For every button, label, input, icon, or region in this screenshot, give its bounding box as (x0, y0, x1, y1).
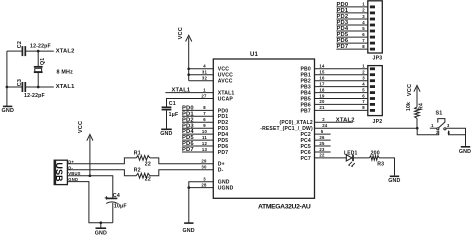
svg-text:R1: R1 (134, 151, 141, 157)
USB connector X1 (54, 159, 80, 184)
svg-text:PD7: PD7 (337, 44, 349, 50)
ground GND (crystal section) (2, 106, 15, 114)
svg-text:6: 6 (362, 93, 365, 98)
svg-text:PB7: PB7 (300, 108, 310, 114)
svg-text:VCC: VCC (78, 121, 84, 133)
svg-text:31: 31 (202, 70, 208, 75)
svg-text:R3: R3 (377, 161, 384, 167)
junction VBUS/VCC (89, 174, 92, 177)
crystal Q1 8MHz (34, 51, 73, 87)
svg-text:GND: GND (388, 178, 400, 184)
wire: USB D+ to R1 (67, 158, 136, 164)
svg-text:S1: S1 (436, 111, 443, 117)
svg-text:JP3: JP3 (373, 55, 383, 61)
svg-text:15: 15 (319, 70, 325, 75)
svg-text:1: 1 (362, 2, 365, 7)
wire: UCAP pin 27 to C1 (167, 93, 214, 107)
svg-text:2: 2 (362, 70, 365, 75)
svg-text:1: 1 (362, 64, 365, 69)
svg-text:4: 4 (362, 20, 365, 25)
wire: C4 to ground rail (112, 203, 114, 223)
svg-text:LED1: LED1 (344, 150, 358, 156)
svg-text:XTAL2: XTAL2 (56, 48, 75, 54)
wire: R3 to GND (379, 158, 394, 176)
capacitor C3 12-22pF (17, 79, 45, 99)
svg-text:XTAL2: XTAL2 (336, 117, 355, 123)
svg-text:XTAL1: XTAL1 (172, 88, 191, 94)
wire: LED1 to R3 (352, 157, 370, 159)
ground GND (R3) (390, 175, 399, 177)
svg-text:R4: R4 (419, 103, 425, 110)
wire: USB GND pin down to rail (67, 182, 112, 223)
svg-text:6: 6 (203, 117, 206, 122)
svg-text:10μF: 10μF (114, 204, 127, 210)
wire: R4 to RESET line (416, 118, 418, 128)
svg-text:PD4: PD4 (337, 26, 349, 32)
nodes PD0-PD7 at JP3 with wires (336, 2, 367, 51)
svg-text:5: 5 (362, 26, 365, 31)
svg-text:8: 8 (362, 105, 365, 110)
svg-text:26: 26 (319, 135, 325, 140)
svg-text:VCC: VCC (407, 84, 413, 96)
U1 unconnected pin stubs PC2/PC4/PC5/PC6 (314, 129, 330, 152)
switch S1 (417, 111, 450, 136)
svg-text:D-: D- (218, 168, 224, 174)
svg-text:22: 22 (319, 153, 325, 158)
svg-text:AVCC: AVCC (218, 79, 233, 85)
svg-text:22: 22 (145, 162, 151, 168)
svg-text:12-22pF: 12-22pF (30, 44, 51, 50)
svg-text:1: 1 (203, 87, 206, 92)
svg-text:C2: C2 (17, 41, 23, 48)
wire: USB D- to R2 (67, 170, 136, 176)
svg-text:U1: U1 (250, 52, 259, 58)
svg-text:GND: GND (95, 230, 107, 236)
svg-text:2: 2 (322, 117, 325, 122)
svg-text:7: 7 (203, 111, 206, 116)
svg-text:PD1: PD1 (337, 8, 349, 14)
svg-text:GND: GND (2, 108, 15, 114)
svg-text:10k: 10k (406, 102, 412, 111)
svg-text:17: 17 (319, 81, 325, 86)
ground GND (S1) (461, 146, 470, 148)
svg-text:16: 16 (319, 76, 325, 81)
node XTAL2 at U1 pin 2 (314, 117, 354, 123)
svg-text:12-22pF: 12-22pF (24, 93, 45, 99)
svg-text:8: 8 (362, 44, 365, 49)
node XTAL1 (net label + junction) (37, 84, 75, 90)
nodes PD0-PD7 net labels at U1 (182, 105, 213, 153)
svg-text:3: 3 (203, 177, 206, 182)
svg-text:11: 11 (202, 135, 207, 140)
svg-text:21: 21 (319, 105, 325, 110)
svg-text:UGND: UGND (218, 186, 234, 192)
connector JP3 (368, 1, 383, 62)
resistor R4 10k (406, 102, 425, 118)
wire: crystal left bus (XTAL2/XTAL1 caps to GND) (6, 51, 23, 106)
svg-text:JP2: JP2 (373, 119, 383, 125)
svg-text:XTAL1: XTAL1 (56, 84, 75, 90)
svg-text:200: 200 (371, 150, 380, 156)
svg-text:13: 13 (202, 147, 208, 152)
svg-text:8: 8 (203, 105, 206, 110)
node XTAL1 at U1 pin 1 (165, 87, 213, 93)
svg-text:C4: C4 (113, 193, 120, 199)
svg-text:24: 24 (322, 123, 328, 128)
svg-text:UCAP: UCAP (218, 96, 234, 102)
svg-text:4: 4 (203, 64, 206, 69)
svg-text:PC7: PC7 (300, 156, 310, 162)
svg-text:C1: C1 (169, 101, 176, 107)
wire: VCC to VBUS (89, 137, 91, 176)
wire: S1 to GND (446, 128, 465, 146)
wire: C2 to XTAL2 node (25, 50, 54, 52)
svg-text:32: 32 (202, 76, 208, 81)
connector JP2 (368, 66, 383, 125)
wire: VCC branches to pins 4/31/32 (187, 67, 213, 80)
svg-text:PD7: PD7 (182, 147, 194, 153)
svg-text:7: 7 (362, 38, 365, 43)
capacitor C2 12-22pF (17, 41, 51, 56)
pin numbers 29/30 (D+/D-) (201, 159, 207, 170)
svg-text:5: 5 (321, 129, 324, 134)
svg-text:6: 6 (362, 32, 365, 37)
ground GND (USB/C4) (95, 223, 107, 237)
svg-text:VCC: VCC (178, 27, 184, 39)
junction RESET/R4 (416, 127, 419, 130)
svg-text:ATMEGA32U2-AU: ATMEGA32U2-AU (258, 203, 311, 210)
svg-text:22: 22 (145, 177, 151, 183)
svg-text:7: 7 (362, 99, 365, 104)
power VCC (USB/VBUS) (78, 121, 93, 141)
svg-text:25: 25 (319, 141, 325, 146)
LED LED1 (344, 150, 358, 167)
svg-text:2: 2 (362, 8, 365, 13)
resistor R1 22 (134, 151, 151, 168)
svg-text:8 MHz: 8 MHz (57, 69, 74, 75)
svg-text:18: 18 (319, 87, 325, 92)
wire: U1 GND pin 3 / UGND pin 28 to ground (187, 177, 213, 224)
U1 left pin names (218, 67, 235, 192)
svg-text:3: 3 (362, 14, 365, 19)
svg-text:9: 9 (203, 123, 206, 128)
svg-text:30: 30 (201, 165, 207, 170)
junction ground rail (99, 221, 102, 224)
svg-text:1μF: 1μF (169, 112, 179, 118)
svg-text:10: 10 (202, 129, 208, 134)
node XTAL2 (net label + junction) (37, 48, 75, 54)
U1 right pin names (260, 67, 313, 162)
power VCC (R4 pullup) (407, 84, 420, 107)
wire: C3 to XTAL1 node (25, 86, 54, 88)
svg-text:4: 4 (362, 81, 365, 86)
svg-text:Q1: Q1 (40, 58, 46, 65)
svg-text:PD7: PD7 (218, 150, 228, 156)
svg-text:29: 29 (201, 159, 207, 164)
svg-text:27: 27 (201, 93, 207, 98)
wire: R2 to IC pin 30 (150, 170, 214, 176)
svg-text:GND: GND (182, 228, 194, 234)
IC U1 ATMEGA32U2-AU (213, 52, 314, 210)
svg-text:3: 3 (362, 76, 365, 81)
svg-text:C3: C3 (17, 79, 23, 86)
wire: PC7 pin 22 to LED1 (314, 153, 347, 158)
svg-text:12: 12 (202, 141, 208, 146)
capacitor C4 10uF (polarized) (105, 193, 127, 209)
wires: PB0-PB7 to JP2 with pin numbers (314, 64, 367, 111)
ground GND (C1) (161, 128, 172, 130)
svg-text:28: 28 (201, 182, 207, 187)
wire: C1 to GND (166, 110, 168, 129)
ground GND (U1) (184, 222, 193, 224)
resistor R2 22 (134, 167, 151, 182)
svg-text:20: 20 (319, 99, 325, 104)
svg-text:5: 5 (362, 87, 365, 92)
wire: RESET net pin 24 to R4/S1 (314, 123, 417, 128)
pin numbers 4/31/32 (202, 64, 208, 81)
wire: R1 to IC pin 29 (150, 158, 214, 164)
wire: VBUS net (USB pin to C4) (67, 176, 112, 199)
svg-text:GND: GND (160, 131, 172, 137)
svg-text:USB: USB (54, 163, 64, 182)
svg-text:19: 19 (319, 93, 325, 98)
svg-text:R2: R2 (134, 167, 141, 173)
capacitor C1 1uF (162, 101, 179, 118)
svg-text:14: 14 (319, 64, 325, 69)
resistor R3 200 (370, 150, 385, 167)
svg-text:23: 23 (319, 147, 325, 152)
power VCC (U1 supply) (178, 27, 192, 81)
svg-text:GND: GND (459, 149, 471, 155)
